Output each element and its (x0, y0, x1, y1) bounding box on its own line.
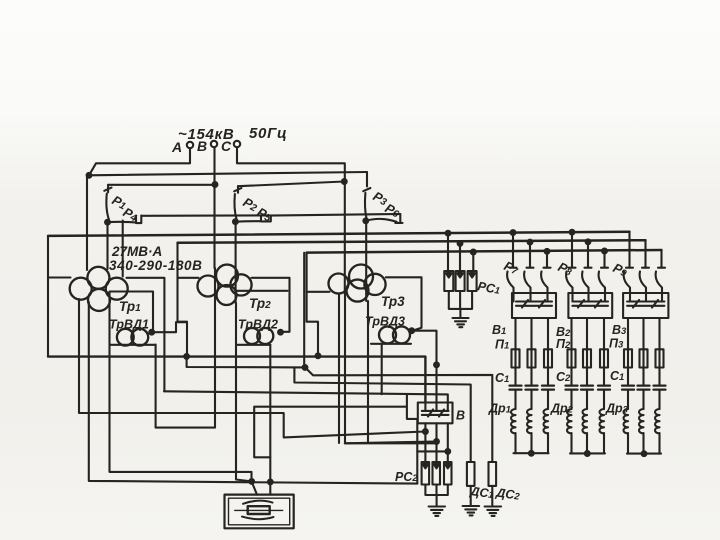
wire L2 (164, 391, 448, 403)
wire RS1 drops (448, 233, 473, 271)
transformer TrVD3 secondary circle (393, 326, 410, 343)
node V output 2 (434, 439, 439, 444)
wire Tr3 right winding down (367, 301, 369, 443)
transformer Tr1 bottom winding (88, 289, 110, 311)
node V output 1 (423, 429, 428, 434)
wire bus2 left corner down to Tr2 left (178, 243, 199, 322)
wire V output 3 stub (417, 450, 448, 452)
wire W3 to V output 2 (339, 294, 437, 443)
node B-P1 junction (213, 182, 218, 187)
svg-text:П2: П2 (556, 337, 571, 351)
fuses P1 group (512, 349, 520, 367)
transformer Tr2 right winding (230, 274, 251, 295)
node A terminal (187, 142, 193, 148)
breaker V2 box (568, 293, 612, 318)
star point group 1 (514, 452, 549, 454)
fuses P3 group (624, 349, 632, 367)
wire Tr2 right winding to TrVD2 (252, 278, 290, 332)
wire bus3 left corner down (307, 253, 318, 356)
svg-text:С: С (221, 138, 232, 154)
wire bus2 (178, 240, 646, 243)
transformer Tr3 bottom winding (347, 280, 369, 302)
disconnector P1 top feed (108, 184, 215, 186)
wire bus A (y175) (89, 172, 367, 175)
svg-text:ТрВД2: ТрВД2 (238, 318, 278, 332)
svg-text:П3: П3 (609, 337, 624, 351)
star point group 3 (627, 453, 661, 455)
arrester RS2 elements (422, 462, 430, 485)
disconnector P3 blade (365, 193, 367, 219)
disconnector P9 blades (624, 272, 662, 294)
node V3 joins furnace line (249, 479, 254, 484)
svg-text:В3: В3 (612, 323, 627, 337)
node P1 bottom contact (105, 220, 110, 225)
svg-text:В: В (456, 409, 465, 423)
nodes bus1 taps for V1 V2 (511, 230, 516, 235)
wire bus1 (48, 232, 630, 236)
node TrVD1 tap on L1 (184, 354, 189, 359)
star point group 2 (570, 452, 605, 454)
arrester RS1 taps on buses (446, 231, 451, 236)
wire Tr1 right winding to L2 (127, 278, 165, 392)
svg-text:ТрВД3: ТрВД3 (365, 315, 405, 329)
nodes bus2 taps (528, 240, 533, 245)
wire phase B vertical lower (156, 268, 215, 428)
svg-text:П1: П1 (495, 338, 509, 352)
svg-text:С2: С2 (556, 370, 571, 384)
furnace outer box (225, 495, 294, 529)
wire P5 output (268, 214, 400, 216)
ground RS2 (429, 507, 445, 516)
disconnector P3 top contact (363, 188, 370, 191)
wire Tr3 right winding to TrVD3 (386, 277, 422, 330)
ground DS2 (485, 507, 502, 516)
wire b-line (187, 356, 493, 462)
wire phase C drop (237, 147, 345, 294)
transformer Tr3 top winding (349, 265, 373, 289)
svg-text:Др1: Др1 (488, 402, 511, 416)
wire furnace feed line y484 (89, 302, 418, 484)
disconnector P2 top feed (238, 182, 344, 187)
transformer Tr3 left winding (329, 274, 349, 294)
wire bus3 to Tr3 left winding (307, 291, 330, 293)
resistor DS2 (489, 462, 497, 486)
wire TrVD2 cradle (236, 344, 270, 346)
disconnector P1 top contact (104, 185, 111, 193)
inductor Dr2 coils (567, 409, 572, 433)
svg-text:50Гц: 50Гц (249, 125, 287, 142)
wire parallel drop to b-line (303, 253, 305, 367)
disconnector P4 jaw (136, 216, 141, 224)
svg-text:С1: С1 (495, 371, 509, 385)
wire RS2 common (425, 485, 447, 507)
wire RS1 common (449, 291, 472, 318)
disconnector P5 blade arc (235, 220, 260, 223)
disconnector P5 jaw (261, 216, 271, 222)
node C terminal (234, 141, 240, 147)
wire V box outputs (425, 423, 447, 462)
wire P1 blade to Tr1 (106, 224, 108, 269)
svg-text:Тр3: Тр3 (381, 294, 405, 309)
wire TrVD1 cradle to furnace left drop (110, 345, 258, 495)
disconnector P8 drops (569, 232, 609, 268)
capacitors C row (510, 386, 666, 390)
disconnector P3 top feed (366, 172, 368, 187)
transformer Tr3 right winding (364, 274, 385, 295)
wire TrVD1 cradle (110, 292, 156, 345)
wire bus corners down P9 (626, 232, 665, 268)
wire TrVD3 cradle (371, 344, 411, 394)
arrester RS1 elements (444, 271, 453, 291)
breaker V3 box (623, 293, 668, 318)
breaker V2 contacts (572, 293, 608, 308)
wires V3 outputs to fuses (628, 318, 660, 385)
transformer Tr1 top winding (87, 267, 109, 289)
disconnector P6 blade arc (366, 219, 397, 222)
svg-text:В1: В1 (492, 323, 506, 337)
transformer TrVD1 secondary circle (131, 329, 148, 346)
node C-P2 junction (342, 179, 347, 184)
wire phase C vertical lower (345, 294, 437, 443)
svg-text:А: А (171, 139, 182, 155)
furnace mid line (235, 509, 283, 511)
svg-text:Др2: Др2 (550, 402, 574, 416)
transformer TrVD2 secondary circle (257, 328, 273, 344)
disconnector P7 blades (507, 272, 547, 294)
disconnector P8 blades (566, 272, 605, 294)
furnace lower arc (242, 517, 274, 520)
svg-text:27МВ·А: 27МВ·А (111, 244, 162, 259)
breaker V3 contacts (627, 293, 664, 308)
node P3 bottom contact (363, 218, 368, 223)
fuses P2 group (568, 349, 576, 367)
node TrVD1 output (149, 330, 154, 335)
wire Tr2 label box top (236, 290, 288, 292)
wire phase B vertical upper (213, 147, 215, 268)
transformer TrVD3 primary circle (379, 326, 396, 343)
wires V2 outputs to fuses (572, 318, 605, 385)
transformer Tr1 right winding (106, 278, 128, 300)
inductor Dr1 coils (511, 409, 516, 433)
wire TrVD3 to breaker V (412, 331, 437, 403)
breaker V1 box (512, 293, 556, 318)
node A bus junction (87, 173, 92, 178)
node bus3 tap on L1 (316, 353, 321, 358)
disconnector P1 blade (106, 194, 109, 221)
breaker V box (418, 403, 453, 424)
node TrVD2 output (278, 330, 283, 335)
wire Tr1 left bottom W2 (79, 299, 425, 437)
wire phase A drop (89, 148, 190, 175)
node P2 bottom contact (233, 219, 238, 224)
node RS1 element dots (447, 272, 450, 275)
inductor Dr3 coils (624, 409, 629, 433)
wire DS1 to ground (470, 486, 472, 506)
node B terminal (211, 141, 217, 147)
disconnector P6 jaw (395, 214, 402, 223)
wire P4 output (141, 214, 268, 217)
furnace upper arc (243, 501, 273, 504)
svg-text:РС2: РС2 (395, 470, 418, 484)
wire L2 jog to furnace right drop (254, 394, 417, 484)
svg-text:В: В (197, 138, 207, 154)
ground RS1 (453, 318, 469, 327)
wires capacitors to coils (516, 390, 660, 409)
transformer Tr1 left winding (70, 278, 92, 300)
wire P3 blade to Tr3 (365, 223, 367, 301)
nodes bus3 taps (545, 249, 550, 254)
disconnector P7 drops (510, 233, 551, 268)
breaker V1 contacts (514, 293, 553, 308)
wire DS2 to ground (491, 486, 493, 506)
wire bus1 branch to Tr1 left winding (48, 276, 71, 278)
wire c-line (294, 367, 470, 462)
transformer Tr2 top winding (216, 265, 238, 287)
breaker V contacts (422, 403, 449, 417)
wire P4 jaw drop to Tr1 right (122, 221, 124, 277)
wires coils to star points (516, 433, 660, 454)
svg-text:340-290-180В: 340-290-180В (109, 258, 203, 273)
svg-text:Др3: Др3 (605, 402, 629, 416)
disconnector P2 top contact (234, 186, 241, 193)
wires V1 outputs to fuses (516, 318, 549, 385)
wire bus1 left corner down (47, 236, 49, 357)
wire bus3 (307, 250, 662, 253)
transformer Tr2 left winding (198, 276, 219, 297)
svg-text:С1: С1 (610, 369, 624, 383)
node furnace feed right (268, 480, 273, 485)
node TrVD3 line crosses b-line (434, 362, 439, 367)
node TrVD3 output (409, 328, 414, 333)
furnace inner box (229, 498, 290, 525)
transformer Tr2 bottom winding (217, 285, 237, 305)
disconnector P2 blade (235, 194, 237, 220)
wire TrVD1 zigzag to L1 (152, 322, 187, 356)
node b-line mid tap (303, 365, 308, 370)
furnace electrode rect (248, 506, 270, 514)
node V output 3 (445, 449, 450, 454)
wire P2 blade to Tr2 (235, 224, 237, 304)
wire furnace right drop V4 (269, 345, 271, 495)
node RS2 element dots (424, 463, 427, 466)
disconnector P4 blade arc (108, 221, 136, 224)
wire L1 (48, 357, 425, 403)
resistor DS1 (467, 462, 475, 486)
wire V3 Tr2 bottom down (236, 303, 252, 481)
wire phase A vertical to Tr1 (86, 176, 88, 270)
transformer TrVD1 primary circle (117, 329, 134, 346)
transformer TrVD2 primary circle (244, 328, 260, 344)
ground DS1 (463, 506, 480, 515)
svg-text:ТрВД1: ТрВД1 (109, 318, 149, 332)
